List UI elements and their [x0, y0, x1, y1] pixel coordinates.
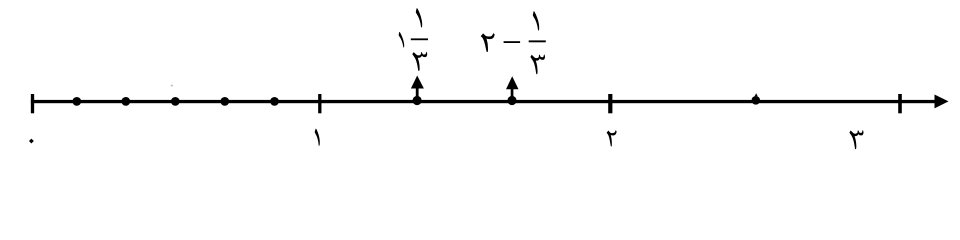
arrow marker at 1 1/3: head: [411, 76, 424, 89]
mixed number 1 1/3: whole part one: [398, 32, 404, 48]
mixed number 1 1/3: numerator one: [415, 8, 422, 27]
dot 5 on segment 0-1: [270, 97, 279, 106]
expression 2 - 1/3: numerator one: [532, 11, 539, 30]
expression 2 - 1/3: fraction bar: [529, 40, 546, 42]
wire: main number line: [31, 100, 937, 103]
arrow marker at 1 1/3: stem: [416, 88, 419, 101]
arrowhead at right end of number line: [935, 95, 949, 109]
label 0 (Arabic-Indic zero) below tick 0: [29, 139, 34, 144]
mixed number 1 1/3: denominator three: [412, 52, 427, 71]
dot 2 on segment 0-1: [121, 97, 130, 106]
dot at midpoint between 2 and 3 with small nub on top: [752, 96, 761, 105]
label 3 (Arabic-Indic three) below tick 3: [849, 130, 863, 149]
dot 4 on segment 0-1: [220, 97, 229, 106]
arrow marker at 2 - 1/3: stem: [511, 89, 514, 102]
arrow marker at 2 - 1/3: head: [506, 76, 519, 89]
number line diagram: [0, 0, 960, 165]
label 2 (Arabic-Indic two) below tick 2: [607, 130, 617, 146]
tick mark 3: [898, 94, 902, 113]
arrow marker at 1 1/3: dot on line: [413, 96, 422, 105]
faint speck above segment 0-1: [171, 85, 173, 87]
dot 3 on segment 0-1: [171, 97, 180, 106]
tick mark 1: [318, 94, 321, 113]
expression 2 - 1/3: minus sign: [504, 41, 520, 43]
label 1 (Arabic-Indic one) below tick 1: [315, 129, 321, 146]
tick mark 0: [31, 94, 34, 113]
dot 1 on segment 0-1: [72, 97, 81, 106]
tick mark 2: [608, 94, 612, 113]
mixed number 1 1/3: fraction bar: [411, 38, 428, 40]
expression 2 - 1/3: digit two: [481, 33, 495, 52]
expression 2 - 1/3: denominator three: [530, 54, 545, 74]
arrow marker at 2 - 1/3: dot on line: [507, 96, 516, 105]
